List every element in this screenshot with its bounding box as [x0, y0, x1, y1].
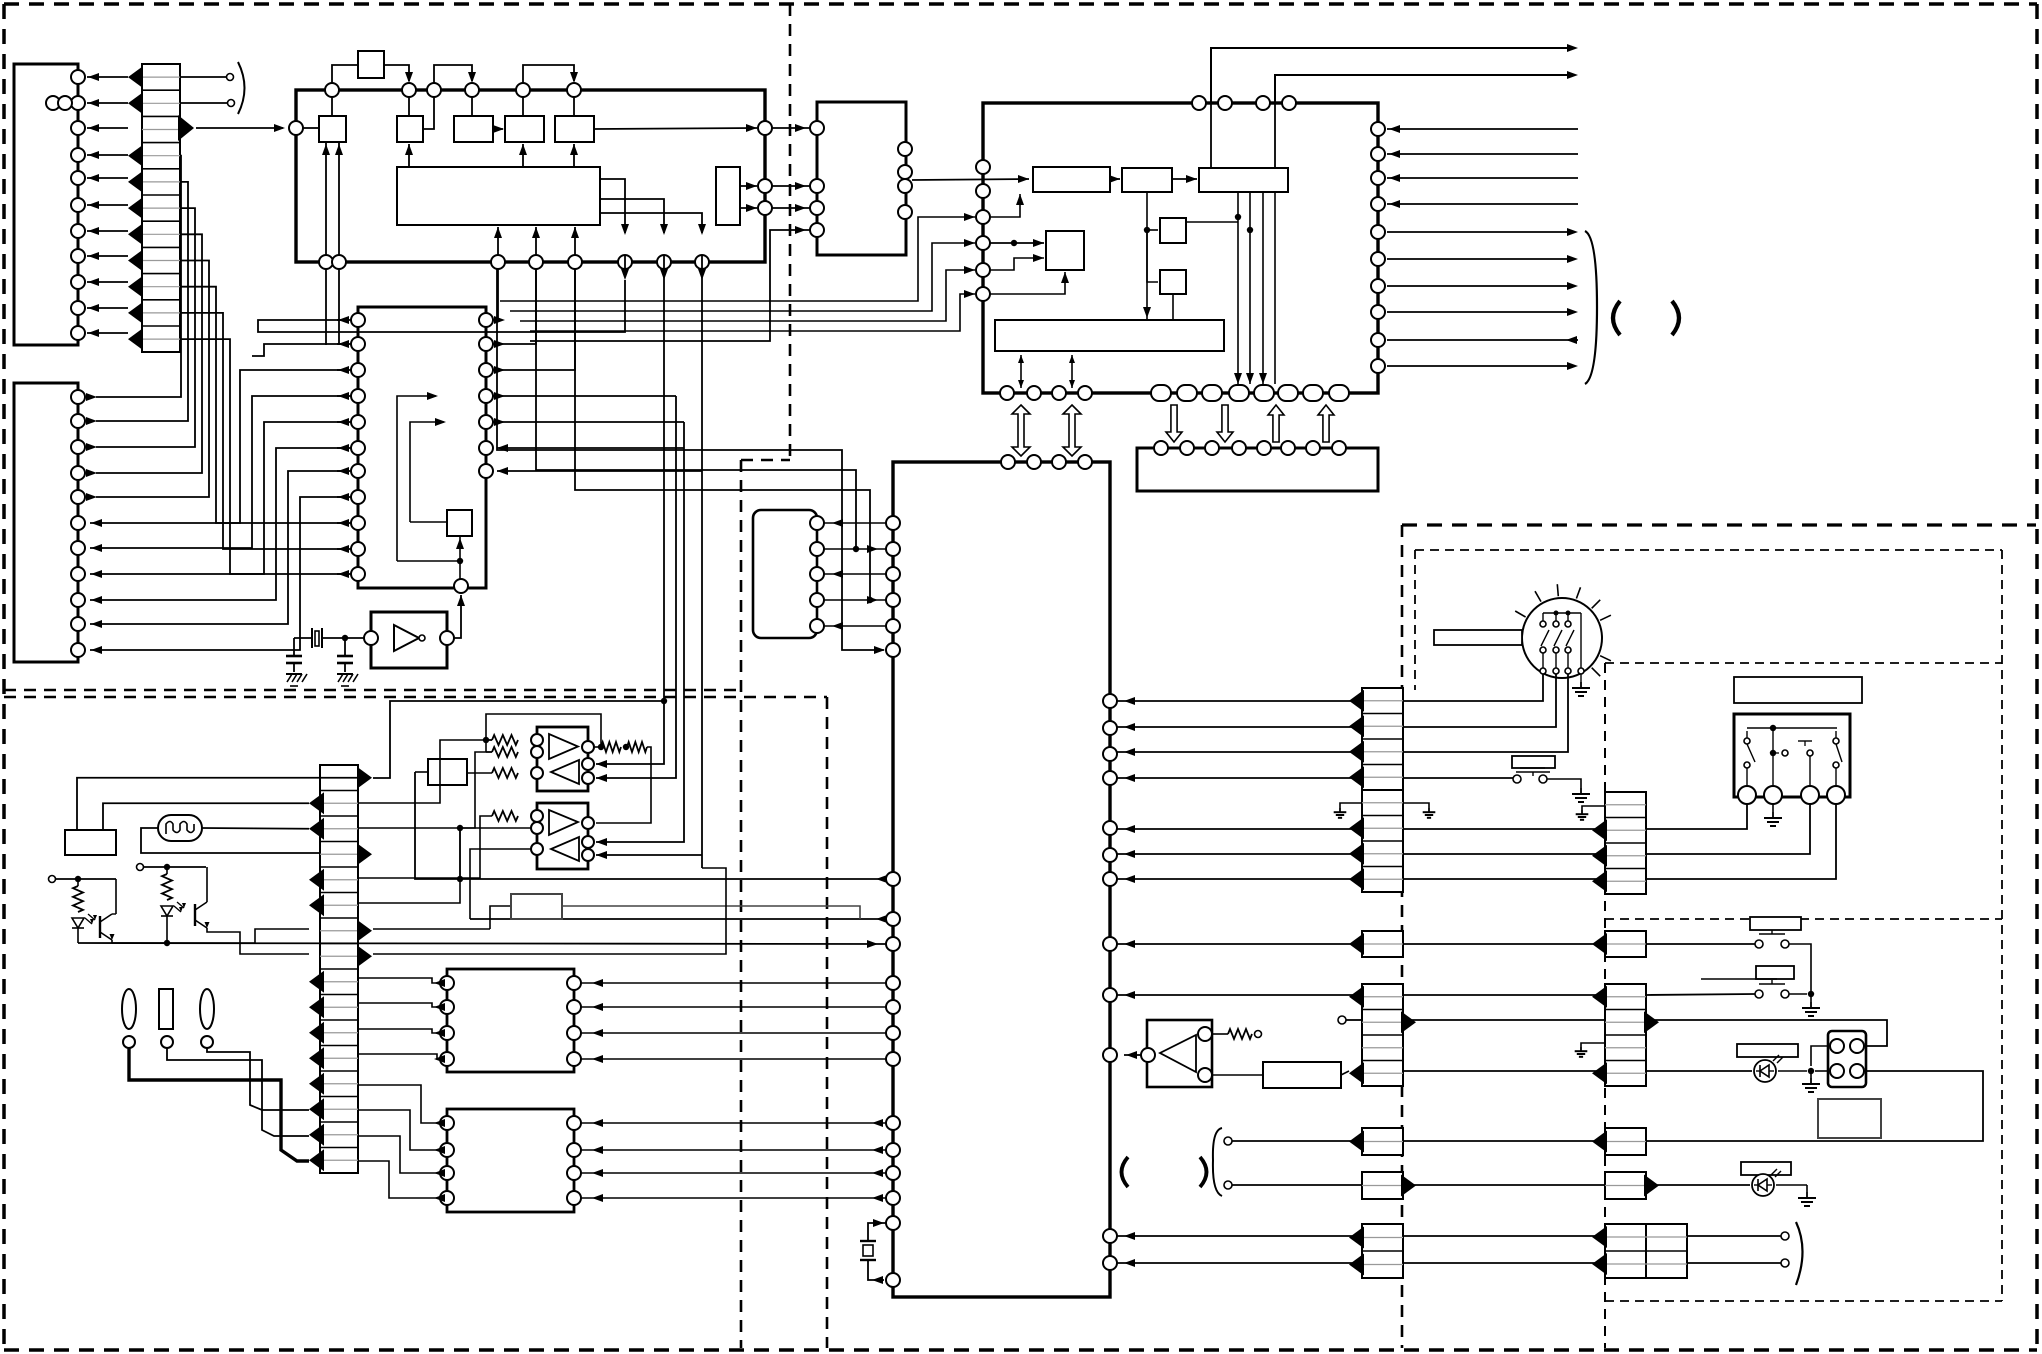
verticals box A from bottom pins	[325, 142, 327, 255]
resistor R6	[601, 742, 621, 752]
vertical box E to top pin	[573, 97, 575, 116]
IC3 block (RF amp)	[817, 102, 906, 255]
LED of PC1	[72, 918, 84, 928]
filter box FB1 on wire	[373, 894, 860, 929]
IC1 main block (servo processor)	[296, 90, 765, 262]
dashed lower right box right edge x=2002	[2001, 550, 2003, 1301]
wire IC1 pin625 to IC2 row1	[258, 280, 625, 332]
inverter gate	[394, 625, 419, 651]
lamp L2 (oval)	[200, 989, 214, 1029]
ground SW0	[1580, 788, 1582, 794]
ground PB2	[1810, 1002, 1812, 1008]
wire CN3 CN4 row1020	[1338, 1016, 1346, 1024]
filter box FB2	[1263, 1062, 1341, 1088]
wire box B to pin3	[423, 97, 434, 129]
wire row1020 to connector J1	[1646, 1020, 1887, 1046]
bus vertical 3	[596, 422, 684, 842]
capacitor C1	[286, 638, 302, 672]
IC2 internal feed	[459, 536, 461, 579]
register box B inside IC1	[397, 116, 423, 142]
wires into IC4 left pins staircase	[500, 213, 975, 331]
wire into IC3 pin4	[530, 230, 810, 341]
motor brushes	[1540, 611, 1584, 683]
sensor rectangle S1	[65, 830, 116, 855]
comparator U3 box	[1147, 1020, 1212, 1087]
transistor Q2	[194, 904, 196, 926]
speaker SP1 plate	[1512, 756, 1555, 768]
wires IC2 right rows4-5 to bus	[493, 392, 684, 426]
pins IC6 right	[567, 976, 581, 1066]
wires left pins into box D	[990, 239, 1044, 270]
decoder staircase outputs	[600, 179, 706, 280]
op-amp U1a	[549, 734, 578, 759]
bridge pins 5-6	[523, 65, 574, 83]
bus wires P2 to IC2 staircase	[90, 370, 348, 654]
push button PB1	[1646, 930, 1811, 994]
wire into IC2 row 2	[252, 344, 348, 356]
wire left pin 294 into box D bottom	[990, 272, 1065, 294]
transistor Q1	[99, 916, 101, 938]
pins IC5 left edge middle	[886, 872, 900, 951]
LED D1 label	[1737, 1044, 1798, 1057]
wire box to R5	[467, 772, 492, 774]
LED D2 label	[1741, 1162, 1791, 1175]
dashed divider central-board left edge x=741	[740, 460, 743, 1348]
ground CN4 row806	[1582, 806, 1605, 810]
wire J1 to row 1141	[1646, 1071, 1983, 1141]
box A inside IC4	[1033, 167, 1110, 192]
connector CN5 block	[1137, 448, 1378, 491]
vertical box A to top pin	[331, 97, 333, 116]
ground CN3 right	[1403, 803, 1429, 808]
arrows bottom pins into decoder	[497, 227, 499, 255]
wires IC5 to CN3 rows 1236 1263	[1117, 1232, 1605, 1267]
wire input pin to box A	[303, 127, 319, 129]
box F inside IC4	[1160, 270, 1186, 294]
pins IC4 bottom small	[1000, 386, 1092, 400]
pins IC5 left edge upper	[886, 516, 900, 657]
vertical box C to top pin	[471, 97, 473, 116]
dashed left edge right unit box x=1402	[1401, 525, 1404, 1348]
wire left pin 217 up into box A	[990, 194, 1020, 217]
pins IC2 left edge	[351, 313, 365, 581]
IC2 internal wire 1	[397, 396, 436, 561]
pins IC5 right edge	[1103, 694, 1117, 1270]
driver IC7	[447, 1109, 574, 1212]
wire box E chain	[1147, 230, 1158, 282]
pins IC5 left edge lower B	[886, 1116, 900, 1205]
brace for test points	[238, 62, 245, 114]
wide box G inside IC4	[995, 320, 1224, 351]
oscillator pins	[364, 631, 378, 645]
wires IC5a to IC5	[824, 519, 886, 630]
pins of P2	[71, 390, 85, 657]
wires IC5 to CN3 switch rows	[1117, 825, 1605, 883]
arrows decoder to register boxes	[408, 144, 410, 167]
pins on IC1 bottom edge	[319, 255, 709, 269]
dashed bottom edge of top-left board y=690	[4, 689, 741, 692]
wire PC1 emitter to CN2	[112, 929, 309, 943]
wire J1 pin to junction	[1811, 1046, 1830, 1066]
wire small pins row link	[1092, 392, 1151, 394]
row 954 wire right	[373, 868, 726, 954]
cable bracket lower right	[1796, 1222, 1803, 1285]
op-amp U2a	[549, 810, 578, 835]
pins IC4 right edge	[1371, 122, 1385, 373]
arrow C to D	[493, 128, 503, 130]
resistor R8	[492, 811, 518, 821]
header block P1 (top-left tall rectangle)	[14, 64, 78, 345]
outline double arrows to IC5	[1012, 405, 1030, 456]
stub verticals from IC1 pins 1-2	[325, 269, 327, 345]
capacitor C2	[337, 638, 353, 672]
pins of P1	[46, 70, 85, 340]
thick wire L1 to CN2	[129, 1048, 309, 1161]
ground D2	[1806, 1192, 1808, 1198]
dashed top edge right unit box y=530	[1402, 523, 2036, 526]
pins IC5 crystal	[886, 1216, 900, 1230]
LED D2	[1646, 1184, 1750, 1186]
pins IC7 right	[567, 1116, 581, 1205]
thin double arrows under G	[1020, 355, 1022, 388]
connector CN1 cell column	[142, 64, 180, 352]
pins IC6 left	[440, 976, 454, 1066]
motor ground	[1580, 682, 1582, 688]
row 803 wire to R3	[358, 740, 455, 803]
wires motor to CN3	[1403, 674, 1568, 752]
op-amp U1b	[551, 760, 579, 784]
wire U3 to FB2 to CN3	[1212, 1074, 1263, 1076]
pins IC3 right	[898, 142, 912, 219]
op-amp block U1	[537, 727, 588, 791]
pins IC5 top edge	[1001, 455, 1092, 469]
IC5 microcontroller block	[893, 462, 1110, 1297]
wires IC1 to IC3	[772, 124, 810, 212]
wires IC2 right rows1-3 up to IC1	[493, 269, 575, 374]
pins IC5a right	[810, 516, 824, 633]
CN1 triangles	[128, 66, 194, 350]
module box M2	[1818, 1099, 1881, 1138]
row2 wire to R4	[373, 701, 664, 778]
wire U2 pin3 to bus	[470, 849, 531, 919]
push button PB1 label	[1750, 917, 1801, 930]
pins on IC1 right edge	[758, 121, 772, 215]
switch unit SW1 box	[1734, 714, 1850, 797]
pins IC7 left	[440, 1116, 454, 1205]
test point row1185	[1224, 1181, 1232, 1189]
row 878 wire to R8	[358, 816, 492, 878]
bridge pins 3-4	[434, 65, 472, 83]
dashed divider main-board right edge x=790	[789, 4, 792, 460]
capacitor box above IC1	[358, 51, 384, 78]
opto coupler PC2	[137, 864, 207, 875]
wire cap box to pin	[332, 65, 358, 83]
test point row1236	[1781, 1232, 1789, 1240]
long arrow output 1 top	[1211, 48, 1575, 103]
wires IC7 to IC5	[581, 1119, 886, 1202]
wire CN3 CN4 rows 1141 1185	[1403, 1140, 1605, 1142]
dashed top edge inner right box y=556	[1415, 549, 2002, 551]
dashed switch unit box left x=1605	[1604, 663, 1606, 1348]
junction R6 R7	[623, 744, 629, 750]
input pin IC1 left	[289, 121, 303, 135]
SW1 ground	[1772, 804, 1774, 812]
IC4 right-edge input wires	[1387, 125, 1578, 208]
resistor R1	[73, 886, 83, 912]
SW1 internals	[1744, 725, 1842, 789]
opto coupler PC1	[49, 876, 117, 887]
dashed right edge of bottom-left board x=827	[826, 697, 829, 1348]
bus vertical 1	[596, 269, 664, 764]
lamp holder rect	[159, 989, 173, 1029]
outline arrows IC4 to CN5	[1166, 405, 1182, 442]
wire ellipse row to corner	[1349, 392, 1377, 394]
resistor R3	[492, 735, 518, 745]
connector J1 (4 pin)	[1828, 1031, 1866, 1087]
driver box inside IC1 right	[716, 167, 740, 225]
box C inside IC4	[1199, 168, 1288, 192]
wire IC5 row995 to CN3	[1117, 994, 1362, 996]
wires CN2 to IC6	[358, 978, 445, 1063]
pins IC2 right edge	[479, 313, 493, 478]
CN2 triangles	[309, 767, 372, 1172]
wire CN1 row2 to test point	[180, 102, 227, 104]
vertical box B to top pin	[408, 97, 410, 116]
register box A inside IC1	[319, 116, 346, 142]
wires driver to right pins	[740, 185, 757, 187]
SW1 label rect	[1734, 677, 1862, 703]
resistor R7	[627, 742, 647, 752]
IC2 internal wire 3	[410, 521, 447, 523]
feedback R7 to U2	[596, 747, 651, 823]
wire CN1 row1 to test point	[180, 76, 226, 78]
push button PB2	[1646, 980, 1814, 1002]
arrows out of IC2 left	[337, 316, 351, 578]
wires into IC2 right rows6-7	[497, 444, 702, 475]
comparator triangle	[1160, 1035, 1196, 1072]
connector CN4 cell column (right)	[1592, 792, 1659, 1199]
wire R3 input	[455, 739, 492, 741]
ground for C1	[286, 673, 302, 675]
connector CN2 cell column	[320, 765, 358, 1173]
header block P2 (bottom-left tall rectangle)	[14, 383, 78, 662]
lamp pins	[123, 1036, 135, 1048]
bus vertical 4	[701, 269, 703, 868]
wire gain box down to IC5 row 879	[415, 771, 428, 773]
op-amp block U2	[537, 803, 588, 869]
oscillator inverter box X1	[371, 612, 447, 668]
verticals box C top to block top	[1210, 103, 1212, 168]
wires CN2 to IC7 staircase	[358, 1085, 445, 1202]
IC2 block (interface)	[358, 307, 486, 588]
motor M1 body	[1515, 584, 1611, 678]
ground CN3 left	[1340, 803, 1362, 808]
arrow B to C	[1172, 178, 1197, 180]
IC2 internal wire 2	[410, 422, 444, 522]
dashed switch unit box top y=663	[1605, 662, 2002, 664]
vertical box D to top pin	[522, 97, 524, 116]
crystal X1	[294, 628, 364, 648]
wire cap box to pin 2	[384, 65, 409, 81]
wire IC3 to IC4	[912, 179, 1029, 180]
IC4 block (system control)	[983, 103, 1378, 393]
resistor R9 from U3	[1212, 1033, 1228, 1035]
pins U2	[531, 810, 594, 861]
switch SW0	[1403, 775, 1581, 788]
IC4 right-edge output wires	[1387, 228, 1578, 370]
wires RT1 to CN2	[141, 828, 320, 853]
register box D inside IC1	[505, 116, 544, 142]
wire oscillator output to IC2	[454, 595, 461, 638]
resistor R5	[492, 768, 518, 778]
dashed left edge inner right box x=1415	[1414, 550, 1416, 690]
dashed lower right box bottom y=1301	[1605, 1300, 2002, 1302]
ellipse pins IC4 bottom	[1151, 385, 1349, 401]
pins CN5	[1154, 441, 1346, 455]
pins IC4 top edge	[1192, 96, 1296, 110]
resistor R2	[162, 874, 172, 900]
arrow A to B	[1110, 178, 1120, 180]
label brackets rows 1141 1185	[1122, 1157, 1129, 1187]
op-amp U2b	[551, 837, 579, 861]
dashed top edge of bottom-left board y=697	[4, 696, 827, 699]
row 903 wire to U2 input	[358, 828, 531, 903]
ground for C2	[337, 673, 353, 675]
test point row1141	[1224, 1137, 1232, 1145]
lamp L1 (oval)	[122, 989, 136, 1029]
verticals box C bottom to row pins	[1186, 192, 1275, 384]
wire CN1 row3 to IC1 input	[196, 127, 283, 129]
bus wires CN1 rows9-11 to IC2	[180, 287, 348, 574]
motor label plate	[1434, 630, 1522, 645]
cable bracket right	[1585, 231, 1597, 384]
LED D1	[1646, 1070, 1752, 1072]
pins U3	[1141, 1048, 1155, 1062]
register box E inside IC1	[555, 116, 594, 142]
sub block IC5a	[753, 510, 817, 638]
pins IC3 left	[810, 121, 824, 237]
ground row1043	[1581, 1043, 1605, 1047]
long arrow output 2 top	[1275, 75, 1575, 103]
wire holder to CN2	[167, 1048, 309, 1136]
ground D1	[1810, 1078, 1812, 1084]
wire IC5 row944 to CN3	[1117, 943, 1362, 945]
dashed switch unit box bottom y=919	[1605, 918, 2002, 920]
vertical F to G	[1172, 294, 1174, 320]
pins IC5 left edge lower A	[886, 976, 900, 1066]
dashed divider jog y=460	[741, 459, 790, 462]
IC2 internal box	[447, 510, 472, 536]
gain select box	[428, 759, 467, 785]
wire box E to right pin row128	[594, 128, 757, 129]
LED of PC2	[161, 906, 173, 916]
box B inside IC4	[1122, 168, 1172, 192]
SW1 bottom pins	[1738, 786, 1845, 804]
photo sensor RT1 (stadium)	[158, 815, 202, 841]
wire L2 to CN2	[207, 1048, 309, 1110]
wire CN3 CN4 row1071	[1403, 1070, 1605, 1072]
connector CN4 double cells bottom	[1592, 1224, 1687, 1278]
pins on IC1 top edge	[325, 83, 581, 97]
test point row1263	[1781, 1259, 1789, 1267]
pin IC2 bottom	[454, 579, 468, 593]
register box C inside IC1	[454, 116, 493, 142]
wires IC6 to IC5	[581, 979, 886, 1063]
wire to IC5 row 919	[470, 918, 886, 920]
wire junction to IC5 row 879	[459, 828, 461, 879]
row 828 wire to R4 input	[358, 752, 492, 828]
crystal X2 for IC5	[860, 1219, 886, 1284]
bus wires CN1 to P2	[86, 156, 209, 501]
pins IC4 left edge	[976, 160, 990, 301]
feedback loop U1	[483, 714, 604, 752]
junction crystal node	[342, 635, 348, 641]
box E inside IC4	[1160, 218, 1186, 243]
wires SW1 to CN4	[1646, 804, 1836, 879]
driver IC6	[447, 969, 574, 1072]
bus vertical 2	[596, 396, 676, 778]
resistor R4	[492, 747, 518, 757]
long wire sensors to IC5 pin944	[78, 940, 886, 948]
vertical B down to G	[1146, 192, 1148, 320]
pins U1	[531, 734, 594, 784]
box D inside IC4	[1046, 231, 1084, 270]
bus feed verticals from IC1 bottom	[497, 269, 885, 654]
wire U3 out to IC5	[1124, 1054, 1141, 1056]
push button PB2 pointer	[1701, 978, 1777, 980]
wires S1 to CN2	[77, 778, 358, 830]
wide decoder box inside IC1	[397, 167, 600, 225]
wires IC5 to CN3 motor rows	[1117, 697, 1362, 782]
push button PB2 label	[1756, 966, 1794, 979]
connector CN3 cell column (left)	[1349, 688, 1416, 1278]
label parentheses right	[1613, 301, 1620, 335]
wires CN1 to P1	[87, 73, 128, 337]
